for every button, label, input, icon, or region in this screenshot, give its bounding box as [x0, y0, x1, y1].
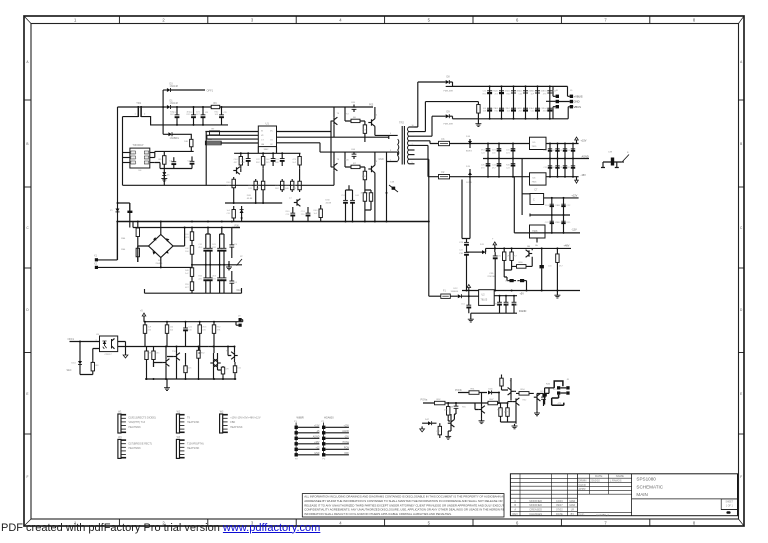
- wire J5 links: [559, 86, 570, 118]
- svg-text:JA: JA: [535, 244, 538, 247]
- capacitor C15: [307, 207, 309, 213]
- svg-text:ZD3: ZD3: [202, 327, 207, 329]
- svg-text:R62: R62: [523, 400, 528, 402]
- transistor T13: [213, 360, 215, 366]
- svg-text:D2/D13(RECTS DIODE): D2/D13(RECTS DIODE): [129, 417, 156, 420]
- svg-text:C7: C7: [534, 189, 538, 192]
- transistor T15a: [234, 352, 236, 358]
- svg-text:GM: GM: [261, 144, 265, 146]
- svg-text:SRD: SRD: [132, 163, 137, 165]
- svg-text:220: 220: [498, 256, 502, 258]
- capacitor C40: [505, 296, 507, 303]
- svg-text:104: 104: [557, 205, 561, 207]
- svg-text:PONa: PONa: [421, 399, 428, 402]
- bridge rectifier D5 25/400: [149, 235, 174, 258]
- wire r37 r38 link: [147, 347, 154, 380]
- svg-text:C51: C51: [507, 91, 512, 93]
- svg-text:R46: R46: [546, 384, 551, 386]
- svg-text:R62: R62: [495, 111, 500, 113]
- svg-text:R55: R55: [543, 91, 548, 93]
- svg-text:CHANGES: CHANGES: [529, 512, 542, 516]
- capacitor C4 4n7: [231, 271, 233, 281]
- svg-text:10K: 10K: [185, 248, 189, 250]
- svg-text:2n2: 2n2: [495, 93, 499, 95]
- capacitor C18: [352, 190, 354, 200]
- capacitor C6a: [205, 234, 207, 248]
- svg-text:C44: C44: [519, 93, 524, 95]
- svg-text:473: 473: [481, 167, 485, 169]
- svg-text:JP: JP: [240, 256, 243, 258]
- ground 48V block: [556, 293, 558, 295]
- svg-text:F3: F3: [442, 138, 445, 141]
- resistor R10 vertical: [364, 167, 366, 184]
- title block revision table grid: [519, 474, 521, 516]
- wire U2 out: [494, 295, 517, 297]
- capacitor bank C25 pair: [549, 86, 551, 118]
- spark gap diagonal: [623, 155, 630, 162]
- wire PONa line: [423, 402, 499, 404]
- wire from TR1 down to cap return rail: [141, 117, 163, 125]
- svg-text:C51: C51: [519, 108, 524, 110]
- ground arrow D47: [421, 426, 423, 429]
- svg-text:F: F: [740, 475, 742, 479]
- svg-text:3K3: 3K3: [553, 389, 558, 391]
- capacitor C50 inline blob: [542, 394, 546, 397]
- svg-text:B: B: [740, 142, 742, 146]
- wire C29 to D11: [467, 251, 483, 253]
- svg-text:R55: R55: [462, 407, 467, 409]
- wire U1 input harness: [205, 132, 258, 186]
- transistor T15: [481, 406, 483, 412]
- svg-text:2: 2: [144, 114, 146, 116]
- svg-text:R40: R40: [506, 165, 511, 167]
- svg-text:MODIFIED: MODIFIED: [529, 499, 542, 503]
- wire TR2 secondary top feeds: [415, 82, 479, 136]
- svg-text:5: 5: [428, 521, 431, 526]
- resistor R18 vertical: [262, 179, 264, 192]
- svg-text:P2: P2: [295, 459, 298, 461]
- svg-text:D21: D21: [492, 150, 497, 152]
- svg-text:4K7: 4K7: [513, 256, 518, 258]
- resistor R22 vertical: [233, 206, 235, 222]
- svg-text:X2: X2: [94, 262, 98, 265]
- svg-text:D20: D20: [247, 195, 252, 197]
- svg-text:100: 100: [492, 152, 496, 154]
- svg-text:C22: C22: [545, 222, 550, 224]
- svg-text:BY: BY: [571, 512, 575, 516]
- svg-text:4: 4: [339, 521, 342, 526]
- svg-text:HEATSINK: HEATSINK: [230, 426, 243, 429]
- svg-text:3K3: 3K3: [345, 114, 350, 116]
- regulator U8 7912: [530, 225, 546, 238]
- top ruler band tick marks: [118, 16, 120, 24]
- wire +12V out: [544, 197, 579, 199]
- transistor T3 power low: [371, 166, 373, 172]
- wire cap return rail: [163, 124, 228, 126]
- wire NEU line: [98, 266, 192, 268]
- transformer TR2 pin stubs right: [409, 126, 415, 128]
- transistor T6: [236, 167, 238, 173]
- resistor R45 vertical: [507, 406, 509, 419]
- resistor R35: [199, 322, 201, 337]
- resistor R66 vertical upper: [137, 222, 139, 244]
- svg-text:HEATSINK: HEATSINK: [129, 426, 142, 429]
- wire bottom rail left drop: [145, 288, 242, 293]
- resistor R12 vertical: [240, 153, 242, 168]
- svg-text:10K: 10K: [292, 188, 296, 190]
- transistor T11: [165, 359, 167, 365]
- title block outline: [510, 474, 737, 516]
- capacitor C13: [281, 153, 283, 158]
- bracket connector W2: [176, 414, 179, 433]
- svg-text:B: B: [627, 152, 629, 154]
- wire driver verticals: [225, 107, 334, 185]
- svg-text:P06: P06: [235, 224, 240, 227]
- svg-text:C51: C51: [198, 244, 203, 246]
- svg-text:6: 6: [516, 18, 519, 23]
- resistor R67 vertical lower: [137, 243, 139, 262]
- capacitor bank C22 pair: [513, 86, 515, 118]
- svg-text:7: 7: [604, 18, 607, 23]
- svg-text:GND: GND: [314, 453, 319, 455]
- wire D12 node: [461, 291, 478, 302]
- svg-text:8: 8: [693, 18, 696, 23]
- disclaimer note box: [302, 494, 504, 517]
- bracket connector W3: [220, 414, 223, 433]
- wire housekeeping bottom rail: [145, 378, 236, 380]
- svg-text:FMX-36R: FMX-36R: [444, 91, 454, 93]
- wire TR1 left vertical to IC: [123, 117, 226, 186]
- svg-text:3K3: 3K3: [481, 150, 486, 152]
- svg-text:2n2: 2n2: [292, 162, 296, 164]
- svg-text:CREASED: CREASED: [529, 508, 542, 512]
- svg-text:C22: C22: [459, 250, 464, 252]
- svg-text:1uF: 1uF: [148, 327, 152, 329]
- svg-text:220: 220: [202, 329, 206, 331]
- svg-text:220: 220: [148, 329, 152, 331]
- svg-text:4: 4: [339, 18, 342, 23]
- svg-text:R55: R55: [185, 284, 190, 286]
- resistor R49 vertical: [447, 403, 449, 419]
- svg-text:1N4148: 1N4148: [170, 102, 179, 105]
- svg-text:45: 45: [167, 175, 170, 177]
- svg-text:5: 5: [428, 18, 431, 23]
- capacitor C65 feedback: [353, 105, 355, 108]
- svg-text:U1: U1: [266, 122, 270, 126]
- wire DGND rail: [469, 311, 517, 317]
- svg-text:+15V: +15V: [343, 426, 349, 428]
- transistor T16: [450, 420, 452, 426]
- svg-text:AGND: AGND: [313, 436, 320, 439]
- transistor T12: [176, 353, 178, 359]
- svg-text:C22: C22: [256, 159, 261, 161]
- svg-text:4K7: 4K7: [185, 287, 190, 289]
- svg-text:CONFIDENTIALITY AGREEMENTS. AN: CONFIDENTIALITY AGREEMENTS. ANY UNAUTHOR…: [304, 508, 520, 512]
- wire feeds to 12V group: [514, 159, 530, 233]
- svg-text:3: 3: [390, 150, 392, 152]
- svg-text:C51: C51: [301, 211, 306, 213]
- svg-text:C8: C8: [205, 112, 209, 114]
- regulator U7 7812: [530, 194, 544, 205]
- ground bridge mid: [228, 261, 230, 265]
- svg-text:C44: C44: [234, 159, 239, 161]
- svg-text:F: F: [27, 475, 29, 479]
- wire -15V out: [546, 176, 579, 178]
- svg-text:C22: C22: [188, 327, 193, 329]
- svg-text:C22: C22: [506, 167, 511, 169]
- resistor R13 vertical: [262, 153, 264, 168]
- wire bulk cap bottom rail: [453, 118, 569, 120]
- capacitor C11: [247, 153, 249, 158]
- svg-text:25/400: 25/400: [156, 263, 163, 265]
- svg-text:FBD: FBD: [230, 421, 235, 424]
- svg-text:7815: 7815: [532, 146, 538, 148]
- svg-text:1uF: 1uF: [506, 256, 510, 258]
- svg-text:E: E: [26, 392, 28, 396]
- svg-text:X1: X1: [94, 255, 98, 258]
- svg-text:220: 220: [301, 214, 305, 216]
- capacitor C20: [185, 322, 187, 328]
- resistor R19 vertical: [281, 179, 283, 192]
- svg-text:R40: R40: [285, 188, 290, 190]
- capacitor C7c lower: [219, 265, 221, 278]
- capacitor C10 ceramic: [191, 156, 193, 161]
- capacitor bank C20 pair: [489, 86, 491, 118]
- svg-text:T12: T12: [172, 351, 177, 353]
- svg-text:+48V: +48V: [564, 245, 570, 248]
- capacitor C41: [513, 296, 515, 303]
- wire primary ground bus: [117, 221, 429, 223]
- wire TR2 primary return: [386, 162, 388, 222]
- svg-text:C51: C51: [227, 213, 232, 215]
- svg-text:1K5: 1K5: [212, 244, 217, 246]
- svg-text:7915: 7915: [532, 182, 538, 184]
- resistor R17 vertical: [255, 179, 257, 192]
- svg-text:1M4: 1M4: [121, 238, 126, 240]
- resistor R52: [435, 401, 446, 405]
- svg-text:C51: C51: [461, 304, 466, 306]
- post-regulator caps +15: [549, 144, 551, 159]
- svg-text:T4: T4: [337, 113, 340, 115]
- svg-text:ZD3: ZD3: [545, 205, 550, 207]
- bracket connector W1: [118, 414, 121, 433]
- svg-text:SPS1080: SPS1080: [636, 477, 656, 482]
- capacitor C66 feedback: [353, 152, 355, 155]
- resistor R33: [144, 322, 146, 337]
- svg-text:104: 104: [507, 111, 511, 113]
- ground T19: [536, 411, 538, 413]
- svg-text:104: 104: [566, 150, 570, 152]
- wire housekeeping top rail: [144, 320, 243, 322]
- wire relay top bracket: [554, 381, 563, 388]
- wire bridge right node to P06 column: [173, 228, 185, 247]
- svg-text:4K7: 4K7: [234, 162, 239, 164]
- wire +15V out: [546, 143, 579, 145]
- svg-text:OFF1: OFF1: [207, 88, 214, 92]
- svg-text:104: 104: [506, 150, 510, 152]
- svg-text:3K3: 3K3: [185, 237, 190, 239]
- svg-text:T3F001P: T3F001P: [132, 143, 143, 147]
- capacitor C7a: [219, 234, 221, 248]
- zener ZD7: [540, 265, 544, 268]
- svg-text:AGND: AGND: [582, 156, 589, 159]
- title block revision dot: [726, 511, 730, 514]
- resistor R24 vertical: [364, 190, 366, 204]
- svg-text:2n2: 2n2: [507, 108, 511, 110]
- capacitor bank C21 pair: [501, 86, 503, 118]
- svg-text:LR: LR: [571, 508, 574, 512]
- svg-text:C66: C66: [351, 149, 356, 151]
- svg-text:220: 220: [241, 159, 245, 161]
- transistor T5 low side: [333, 164, 335, 170]
- svg-text:8: 8: [693, 521, 696, 526]
- side ruler band tick marks: [24, 99, 31, 101]
- transformer TR2 pin stubs left: [387, 135, 398, 161]
- svg-text:C51: C51: [566, 167, 571, 169]
- svg-text:-15V: -15V: [581, 174, 587, 177]
- svg-text:C29: C29: [459, 242, 464, 244]
- svg-text:DATE: DATE: [556, 512, 563, 516]
- ground below R15: [477, 116, 479, 122]
- wire IC right pins bus: [155, 151, 194, 157]
- svg-text:DRWN: DRWN: [578, 479, 586, 483]
- svg-text:4K7: 4K7: [559, 266, 564, 268]
- wire J6 links: [546, 86, 556, 118]
- wire +48V rail: [486, 248, 571, 252]
- svg-text:C: C: [740, 226, 743, 230]
- resistor R36: [213, 322, 215, 337]
- resistor R6 horizontal: [351, 119, 360, 122]
- svg-text:D: D: [740, 308, 743, 312]
- svg-text:104: 104: [506, 304, 510, 306]
- power arrow -15V: [576, 177, 578, 181]
- svg-text:D15: D15: [466, 166, 471, 168]
- resistor R39: [185, 365, 187, 374]
- svg-text:BURG: BURG: [466, 151, 472, 153]
- svg-text:R3: R3: [96, 365, 100, 367]
- transistor T14: [217, 360, 219, 366]
- svg-text:SRD: SRD: [132, 153, 137, 155]
- svg-text:R40: R40: [314, 210, 319, 212]
- svg-text:T10/VR5(PTH): T10/VR5(PTH): [187, 442, 204, 445]
- wire relay bottom loop: [552, 395, 564, 406]
- resistor R15 bleeder: [477, 102, 479, 116]
- wire R49 to T16: [448, 419, 450, 421]
- capacitor C16 polarized on branch: [127, 211, 132, 213]
- svg-text:473: 473: [292, 159, 296, 161]
- wire -12V rail: [514, 232, 580, 234]
- svg-text:R40: R40: [286, 211, 291, 213]
- wire cap drops: [346, 185, 353, 221]
- svg-text:DGND: DGND: [519, 310, 527, 313]
- wire AGND mid rail: [483, 158, 589, 160]
- svg-text:D21: D21: [506, 152, 511, 154]
- wire bridge top node up to bus: [160, 222, 162, 235]
- power arrow node 48: [494, 245, 496, 249]
- svg-text:2n2: 2n2: [185, 273, 189, 275]
- transistor T19: [536, 394, 538, 400]
- svg-text:D11: D11: [480, 244, 485, 246]
- capacitor C7d lower: [223, 265, 225, 278]
- svg-text:7: 7: [604, 521, 607, 526]
- wire R39 links: [185, 353, 187, 379]
- zener D40 on left vertical: [116, 209, 120, 212]
- svg-text:SRD: SRD: [132, 158, 137, 160]
- resistor R40: [198, 349, 200, 360]
- svg-text:+5: +5: [140, 311, 143, 313]
- svg-text:D30: D30: [326, 200, 331, 202]
- regulator U8 ground stub: [536, 238, 538, 243]
- wire below-IC row: [155, 163, 192, 186]
- svg-text:R55: R55: [198, 276, 203, 278]
- zener diodes cluster: [510, 279, 514, 282]
- svg-text:7: 7: [412, 144, 413, 146]
- svg-text:HEATSINK: HEATSINK: [187, 421, 200, 424]
- svg-text:R50: R50: [519, 262, 524, 264]
- spark gap JP1: [237, 259, 243, 266]
- svg-text:INFORMATION SHALL RESULT IN CI: INFORMATION SHALL RESULT IN CIVIL AND/OR…: [304, 512, 452, 516]
- svg-text:C44: C44: [355, 195, 360, 197]
- resistor R21 vertical: [299, 179, 301, 192]
- svg-text:R62: R62: [543, 150, 548, 152]
- svg-text:CNY17: CNY17: [105, 354, 113, 356]
- wire R40 links: [199, 347, 200, 380]
- wire bulk cap top rail: [453, 85, 568, 87]
- svg-text:SCHEMATIC: SCHEMATIC: [636, 484, 663, 489]
- capacitor C8 electrolytic: [202, 107, 204, 115]
- svg-text:J9: J9: [238, 316, 241, 318]
- svg-text:REV: REV: [513, 512, 519, 516]
- svg-text:OFF: OFF: [344, 453, 349, 455]
- svg-text:U4: U4: [139, 170, 143, 172]
- resistor R10K vertical: [190, 138, 192, 148]
- svg-text:R51: R51: [471, 388, 476, 390]
- ground housekeeping: [166, 379, 168, 386]
- svg-text:D21: D21: [519, 91, 524, 93]
- svg-text:C51: C51: [483, 91, 488, 93]
- svg-text:C44: C44: [551, 167, 556, 169]
- svg-text:W4: W4: [118, 437, 122, 439]
- svg-text:E: E: [740, 392, 742, 396]
- svg-text:2: 2: [162, 18, 165, 23]
- wire R41 drop: [222, 375, 224, 379]
- svg-text:C19: C19: [390, 182, 395, 184]
- wire OFF1 to opto: [70, 341, 100, 343]
- power arrow aux: [468, 288, 470, 292]
- resistor R44 vertical: [500, 406, 502, 419]
- resistor R37 small: [146, 350, 148, 362]
- capacitor C38: [499, 296, 501, 303]
- svg-text:+: +: [492, 238, 494, 241]
- resistor R54: [519, 392, 529, 396]
- wire mid field link: [225, 168, 300, 203]
- wire transistor emitter drops: [365, 137, 371, 190]
- svg-text:Z1: Z1: [110, 210, 113, 212]
- svg-text:C51: C51: [543, 167, 548, 169]
- resistor R8 vertical: [364, 121, 366, 137]
- svg-text:C: C: [533, 199, 535, 202]
- svg-text:100: 100: [188, 329, 192, 331]
- disclaimer note text: [304, 495, 524, 517]
- svg-text:D46: D46: [489, 388, 494, 390]
- svg-text:220: 220: [170, 327, 174, 329]
- svg-text:D9: D9: [447, 111, 451, 114]
- svg-text:1: 1: [135, 114, 137, 116]
- svg-text:MAIN: MAIN: [636, 492, 647, 497]
- svg-text:10K: 10K: [483, 111, 487, 113]
- capacitor C29 1L25U: [466, 239, 468, 243]
- svg-text:T7: T7: [289, 198, 292, 200]
